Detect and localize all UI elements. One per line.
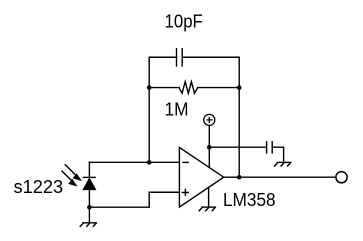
svg-text:10pF: 10pF bbox=[165, 11, 203, 31]
svg-text:LM358: LM358 bbox=[223, 190, 276, 210]
svg-text:1M: 1M bbox=[165, 99, 189, 119]
svg-text:s1223: s1223 bbox=[14, 177, 64, 197]
